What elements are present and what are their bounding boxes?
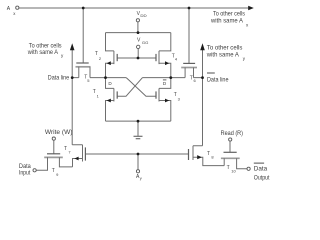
wire: Ay stem: [137, 154, 139, 170]
svg-text:y: y: [61, 53, 64, 58]
transistor T2 (left load): [106, 33, 118, 78]
svg-text:2: 2: [99, 56, 102, 61]
svg-text:D: D: [163, 81, 167, 86]
svg-text:T: T: [64, 146, 67, 152]
svg-text:with same A: with same A: [27, 49, 59, 56]
svg-text:y: y: [243, 56, 246, 61]
arrow: T3 source: [165, 99, 169, 103]
svg-text:3: 3: [178, 97, 181, 102]
terminal Ay: [136, 170, 139, 173]
junction: bottom rail / ground: [137, 120, 140, 123]
wire: right data (bit) line vertical: [202, 46, 204, 146]
wire: gate line T2-T4: [117, 57, 156, 59]
svg-text:T: T: [52, 168, 55, 174]
svg-text:Data: Data: [254, 165, 268, 172]
junction: node D: [104, 76, 107, 79]
open terminal circles: [16, 6, 251, 173]
wire: T6 gate stem from word line: [188, 8, 190, 63]
svg-text:T: T: [95, 51, 98, 57]
svg-text:y: y: [140, 176, 142, 181]
arrow: T7 source: [74, 157, 78, 161]
label: to other cells with same Ax (top right): [210, 11, 249, 28]
transistor T4 (right load): [156, 33, 171, 78]
svg-text:T: T: [207, 151, 210, 157]
svg-text:To other cells: To other cells: [213, 11, 245, 18]
junction: VGG stem / gate line: [137, 57, 140, 60]
junction: row line / Ay stem: [137, 153, 140, 156]
label: to other cells with same Ay (left): [27, 43, 64, 59]
svg-text:4: 4: [175, 57, 178, 62]
wire: word line Ax (top horizontal): [19, 7, 249, 9]
arrow: T8 source: [197, 155, 202, 159]
transistor T3 (right driver): [156, 78, 171, 122]
svg-text:Data line: Data line: [48, 75, 70, 82]
label Data Input: [19, 163, 31, 176]
wire: node Dbar horizontal line: [143, 77, 186, 79]
ground: [134, 121, 143, 139]
wire: T5 gate stem from word line: [82, 8, 84, 63]
terminal Write: [52, 137, 55, 140]
transistor T1 (left driver): [106, 78, 118, 122]
svg-text:x: x: [246, 23, 249, 28]
arrow: T2 source: [107, 61, 111, 65]
transistor T9 (data input gate): [36, 140, 72, 170]
arrow: left data line up: [70, 43, 75, 50]
svg-text:DD: DD: [140, 13, 146, 18]
wire: top rail connecting T2,T4 drains: [106, 32, 171, 34]
terminal Ax: [16, 6, 19, 9]
svg-text:5: 5: [87, 78, 90, 83]
wire: row line Ay connecting T7,T8 gates: [85, 153, 188, 155]
wire: bottom rail T1,T3 sources: [106, 120, 171, 122]
transistor T8 (read column device): [189, 146, 225, 166]
wire: cross-couple diagonal T1 gate to Dbar: [117, 78, 142, 97]
terminal Data input: [33, 169, 36, 172]
wire: VDD stem: [137, 22, 139, 33]
svg-text:7: 7: [68, 150, 71, 155]
wire: node D horizontal line: [90, 77, 126, 79]
svg-text:1: 1: [97, 93, 100, 98]
svg-text:with same A: with same A: [206, 52, 240, 59]
label Data-bar Output: [254, 163, 270, 182]
svg-text:Output: Output: [254, 175, 270, 182]
wire: VGG stem: [137, 49, 139, 58]
svg-text:T: T: [227, 165, 230, 171]
arrow: word line to other cells (right): [248, 6, 254, 11]
junction: data-bar line / T6: [201, 76, 204, 79]
svg-text:x: x: [13, 11, 16, 16]
wire: left data (bit) line vertical: [71, 46, 73, 145]
svg-text:Data line: Data line: [207, 76, 229, 83]
transistor T6 (right access): [181, 63, 202, 77]
svg-text:GG: GG: [142, 40, 149, 45]
junction: data line / T5: [71, 76, 74, 79]
junction: node Dbar: [169, 76, 172, 79]
svg-text:T: T: [93, 89, 96, 95]
transistor T7 (write column device): [72, 145, 85, 167]
arrow: T1 source: [107, 99, 111, 103]
junction: word line / T5 gate stem: [82, 7, 85, 10]
svg-text:Input: Input: [19, 170, 31, 177]
transistor T10 (data output gate): [221, 141, 247, 169]
svg-text:A: A: [7, 6, 11, 12]
terminal Read: [229, 138, 232, 141]
svg-text:with same A: with same A: [210, 18, 244, 25]
svg-text:8: 8: [211, 155, 214, 160]
arrow: T4 source: [165, 61, 169, 65]
wire: cross-couple diagonal D to T3 gate: [126, 78, 156, 97]
svg-text:V: V: [137, 38, 141, 44]
svg-text:T: T: [190, 76, 193, 82]
junction: VDD stem / top rail: [137, 31, 140, 34]
svg-text:10: 10: [231, 168, 236, 173]
svg-text:Read (R): Read (R): [221, 130, 243, 137]
arrow: right data line up: [200, 43, 205, 50]
svg-text:Write (W): Write (W): [45, 129, 73, 136]
terminal Data output: [247, 167, 250, 170]
svg-text:9: 9: [56, 172, 59, 177]
terminal VDD: [136, 19, 139, 22]
terminal VGG: [137, 45, 140, 48]
svg-text:6: 6: [194, 78, 197, 83]
svg-text:T: T: [174, 92, 177, 98]
label: to other cells with same Ay (right): [206, 45, 246, 61]
transistor T5 (left access): [72, 63, 90, 78]
junction: word line / T6 gate stem: [188, 7, 191, 10]
svg-text:D: D: [108, 81, 112, 86]
